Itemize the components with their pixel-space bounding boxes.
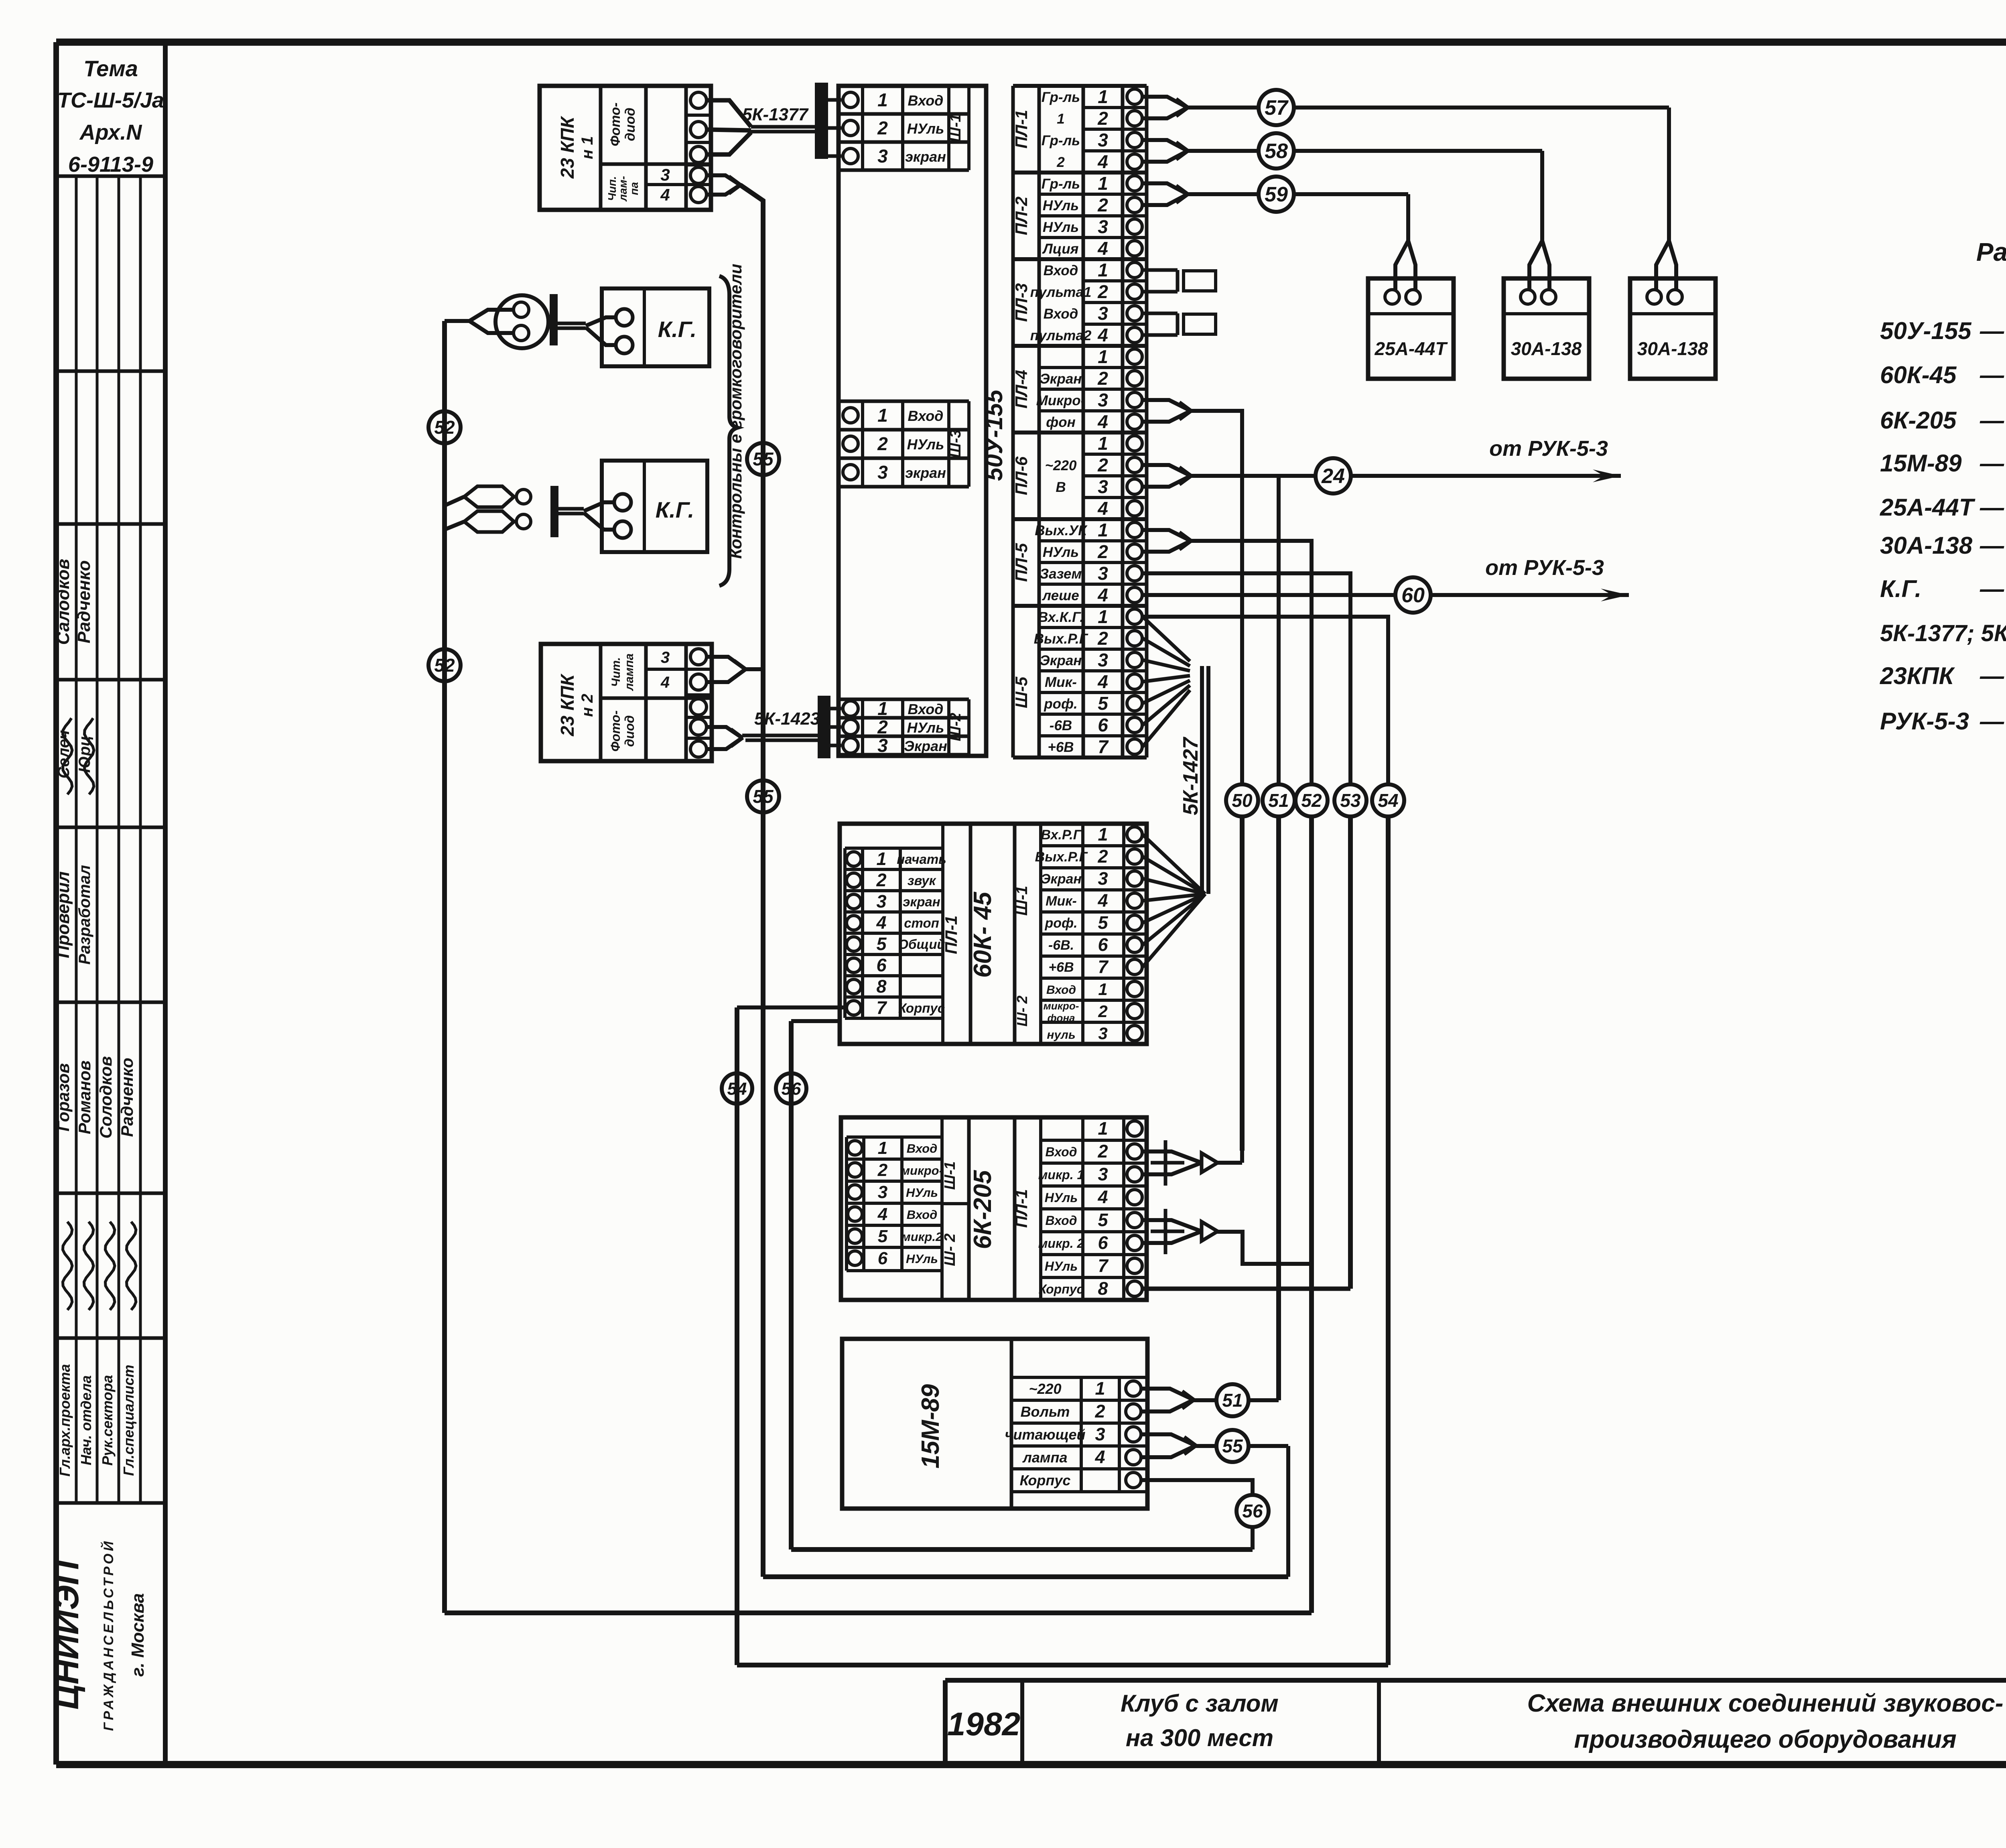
svg-text:2: 2: [1097, 368, 1108, 389]
svg-text:4: 4: [1097, 238, 1108, 259]
svg-text:Корпус: Корпус: [1020, 1472, 1071, 1489]
svg-text:+6В: +6В: [1048, 739, 1074, 755]
svg-text:Салодков: Салодков: [53, 559, 73, 645]
svg-text:1: 1: [877, 405, 888, 426]
svg-text:5К-1377: 5К-1377: [742, 105, 809, 124]
svg-text:53: 53: [1340, 790, 1361, 811]
svg-text:2: 2: [877, 717, 888, 737]
svg-text:звук: звук: [908, 873, 937, 888]
svg-text:4: 4: [877, 1204, 887, 1224]
svg-text:6К-205: 6К-205: [1880, 407, 1957, 434]
svg-text:3: 3: [1098, 303, 1108, 324]
svg-text:г. Москва: г. Москва: [128, 1593, 148, 1677]
svg-text:56: 56: [1242, 1501, 1263, 1521]
svg-text:ГРАЖДАНСЕЛЬСТРОЙ: ГРАЖДАНСЕЛЬСТРОЙ: [101, 1539, 116, 1731]
svg-text:2: 2: [1097, 281, 1108, 302]
svg-text:3: 3: [1098, 390, 1108, 410]
svg-text:1: 1: [1098, 346, 1108, 367]
svg-text:3: 3: [1098, 130, 1108, 150]
svg-text:—: —: [1980, 494, 2004, 521]
svg-text:6: 6: [876, 955, 887, 975]
svg-text:30А-138: 30А-138: [1511, 338, 1582, 359]
svg-text:—: —: [1980, 317, 2004, 344]
svg-text:Микро-: Микро-: [1036, 393, 1086, 408]
svg-text:Зазем: Зазем: [1040, 566, 1082, 582]
svg-text:Вход: Вход: [907, 1208, 938, 1222]
svg-text:начать: начать: [897, 852, 946, 867]
svg-text:ПЛ-2: ПЛ-2: [1012, 197, 1031, 235]
svg-text:НУль: НУль: [1043, 198, 1079, 213]
svg-text:Романов: Романов: [75, 1060, 94, 1134]
svg-text:3: 3: [1098, 563, 1108, 584]
svg-text:Ш-3: Ш-3: [947, 430, 964, 458]
svg-text:50: 50: [1232, 790, 1253, 811]
svg-text:—: —: [1980, 575, 2004, 602]
svg-text:-6В.: -6В.: [1048, 938, 1074, 953]
svg-text:Фото-: Фото-: [608, 102, 623, 146]
svg-text:3: 3: [1098, 868, 1108, 889]
svg-text:2: 2: [1097, 1141, 1108, 1162]
svg-text:1: 1: [877, 89, 888, 110]
svg-text:Гр-ль: Гр-ль: [1042, 176, 1080, 192]
svg-text:+6В: +6В: [1048, 960, 1074, 975]
svg-text:Вход: Вход: [1045, 1145, 1077, 1159]
svg-text:1: 1: [1098, 260, 1108, 280]
svg-text:от РУК-5-3: от РУК-5-3: [1485, 556, 1604, 580]
svg-text:60К-45: 60К-45: [1880, 361, 1957, 388]
svg-text:3: 3: [876, 891, 886, 912]
svg-text:Арх.N: Арх.N: [79, 120, 142, 144]
svg-text:Вход: Вход: [907, 1141, 938, 1156]
svg-text:НУль: НУль: [1045, 1190, 1078, 1205]
svg-text:59: 59: [1265, 183, 1288, 206]
svg-text:Вход: Вход: [908, 92, 944, 109]
svg-text:52: 52: [1301, 790, 1322, 811]
svg-text:Вход: Вход: [1046, 983, 1076, 997]
svg-text:52: 52: [434, 655, 455, 676]
svg-text:ПЛ-6: ПЛ-6: [1012, 456, 1031, 495]
svg-text:1: 1: [877, 698, 888, 719]
svg-text:15М-89: 15М-89: [1880, 450, 1962, 477]
svg-text:ЦНИИЭП: ЦНИИЭП: [47, 1560, 86, 1710]
svg-text:Ш- 2: Ш- 2: [942, 1233, 958, 1266]
svg-text:—: —: [1980, 407, 2004, 434]
svg-text:55: 55: [1222, 1436, 1243, 1456]
svg-text:НУль: НУль: [1045, 1259, 1078, 1273]
svg-text:7: 7: [1098, 736, 1109, 757]
svg-text:Вых.Р.Г: Вых.Р.Г: [1034, 631, 1088, 647]
svg-text:54: 54: [1378, 790, 1398, 811]
svg-text:24: 24: [1321, 465, 1345, 488]
svg-text:К.Г.: К.Г.: [1880, 575, 1921, 602]
svg-text:4: 4: [1097, 585, 1108, 605]
svg-text:2: 2: [877, 118, 888, 138]
svg-text:леше: леше: [1042, 588, 1079, 603]
svg-text:микро-: микро-: [901, 1164, 943, 1178]
svg-text:51: 51: [1268, 790, 1289, 811]
svg-text:РУК-5-3: РУК-5-3: [1880, 708, 1969, 735]
svg-text:—: —: [1980, 662, 2004, 689]
svg-text:Ш-1: Ш-1: [1013, 886, 1031, 916]
svg-text:экран: экран: [905, 465, 946, 481]
svg-text:4: 4: [1094, 1447, 1105, 1467]
svg-text:Гр-ль: Гр-ль: [1042, 89, 1080, 105]
svg-text:на 300 мест: на 300 мест: [1126, 1724, 1273, 1751]
svg-text:4: 4: [1097, 151, 1108, 172]
svg-text:2: 2: [1097, 108, 1108, 129]
svg-text:4: 4: [1097, 325, 1108, 345]
svg-text:4: 4: [660, 674, 670, 691]
svg-text:Клуб с залом: Клуб с залом: [1121, 1690, 1279, 1717]
svg-text:Вх.К.Г.: Вх.К.Г.: [1038, 609, 1084, 625]
svg-text:Горазов: Горазов: [54, 1063, 73, 1131]
svg-text:5К-1427: 5К-1427: [1179, 737, 1202, 815]
svg-text:НУль: НУль: [907, 120, 944, 137]
svg-text:4: 4: [660, 185, 670, 204]
svg-text:30А-138: 30А-138: [1880, 532, 1973, 559]
svg-text:55: 55: [753, 449, 774, 469]
svg-text:2: 2: [1097, 628, 1108, 649]
svg-text:нуль: нуль: [1047, 1028, 1075, 1042]
svg-text:23 КПК: 23 КПК: [557, 673, 578, 736]
svg-text:ПЛ-4: ПЛ-4: [1012, 370, 1031, 408]
svg-text:Экран: Экран: [1040, 653, 1082, 668]
svg-text:Чит.: Чит.: [609, 657, 623, 687]
svg-text:роф.: роф.: [1044, 696, 1077, 712]
svg-text:55: 55: [753, 786, 774, 807]
svg-text:6: 6: [1098, 934, 1108, 955]
svg-text:стоп: стоп: [904, 916, 939, 930]
svg-text:Ш-5: Ш-5: [1012, 676, 1031, 708]
svg-text:5: 5: [1098, 693, 1109, 714]
svg-text:2: 2: [1097, 541, 1108, 562]
svg-text:~220: ~220: [1045, 458, 1077, 473]
svg-text:15М-89: 15М-89: [917, 1384, 944, 1468]
svg-text:Мик-: Мик-: [1045, 674, 1077, 690]
svg-text:4: 4: [1097, 1187, 1108, 1207]
svg-text:3: 3: [660, 165, 670, 184]
svg-text:4: 4: [1097, 671, 1108, 692]
svg-text:микр. 2: микр. 2: [1038, 1236, 1084, 1251]
svg-text:2: 2: [1097, 846, 1108, 867]
svg-text:1: 1: [1057, 111, 1064, 127]
svg-text:3: 3: [661, 649, 670, 666]
svg-text:3: 3: [1095, 1424, 1105, 1444]
svg-text:3: 3: [877, 735, 888, 756]
svg-text:2: 2: [1056, 154, 1065, 170]
svg-text:4: 4: [1097, 498, 1108, 519]
svg-text:6: 6: [1098, 715, 1108, 735]
svg-text:25А-44Т: 25А-44Т: [1880, 494, 1976, 521]
svg-text:диод: диод: [623, 108, 638, 141]
svg-text:1: 1: [1095, 1378, 1105, 1399]
svg-text:экран: экран: [903, 894, 940, 909]
svg-text:Вход: Вход: [1044, 306, 1078, 322]
svg-text:н 1: н 1: [579, 136, 596, 159]
svg-text:3: 3: [1098, 1024, 1107, 1043]
svg-text:лам-: лам-: [617, 176, 629, 202]
svg-text:НУль: НУль: [1043, 219, 1079, 235]
svg-text:фон: фон: [1046, 414, 1076, 430]
svg-text:Вход: Вход: [1044, 263, 1078, 278]
svg-text:—: —: [1980, 450, 2004, 477]
svg-text:Вх.Р.Г: Вх.Р.Г: [1041, 827, 1082, 843]
svg-text:30А-138: 30А-138: [1637, 338, 1708, 359]
svg-text:3: 3: [878, 1182, 887, 1202]
svg-text:Гл.специалист: Гл.специалист: [120, 1365, 137, 1476]
svg-text:Нач. отдела: Нач. отдела: [78, 1375, 94, 1465]
svg-text:ПЛ-5: ПЛ-5: [1012, 543, 1031, 582]
svg-text:Вольт: Вольт: [1021, 1403, 1070, 1420]
svg-text:Вход: Вход: [1045, 1213, 1077, 1228]
svg-text:Тема: Тема: [83, 56, 138, 81]
svg-text:52: 52: [434, 417, 455, 438]
svg-text:2: 2: [1098, 1002, 1107, 1021]
svg-text:Корпус: Корпус: [898, 1001, 945, 1015]
svg-text:микр.2: микр.2: [901, 1230, 942, 1244]
svg-text:Схема внешних соединений зв: Схема внешних соединений звуковос-: [1527, 1690, 2004, 1717]
svg-text:ПЛ-1: ПЛ-1: [1012, 1189, 1031, 1228]
svg-text:Рук.сектора: Рук.сектора: [99, 1375, 116, 1466]
svg-text:1: 1: [1098, 980, 1107, 999]
svg-text:7: 7: [1098, 956, 1109, 977]
svg-text:-6В: -6В: [1050, 718, 1072, 733]
svg-text:НУль: НУль: [907, 436, 944, 453]
svg-text:4: 4: [1097, 890, 1108, 911]
svg-text:микро-: микро-: [1044, 1000, 1079, 1012]
svg-text:1982: 1982: [947, 1706, 1020, 1742]
svg-text:7: 7: [1098, 1255, 1109, 1276]
svg-text:8: 8: [1098, 1278, 1108, 1299]
svg-text:25А-44Т: 25А-44Т: [1375, 338, 1448, 359]
svg-text:Вход: Вход: [908, 408, 944, 424]
svg-text:К.Г.: К.Г.: [656, 497, 694, 522]
svg-text:пульта1: пульта1: [1030, 284, 1092, 300]
svg-text:1: 1: [878, 1138, 887, 1158]
svg-text:6: 6: [878, 1249, 888, 1268]
svg-text:~220: ~220: [1029, 1381, 1061, 1397]
svg-text:2: 2: [877, 1160, 888, 1180]
svg-text:2: 2: [1097, 455, 1108, 475]
svg-text:экран: экран: [905, 148, 946, 165]
svg-text:3: 3: [877, 146, 888, 167]
svg-text:ПЛ-1: ПЛ-1: [942, 916, 960, 954]
svg-text:6К-205: 6К-205: [969, 1170, 997, 1249]
svg-text:4: 4: [1097, 411, 1108, 432]
svg-text:диод: диод: [622, 715, 637, 747]
svg-text:3: 3: [1098, 650, 1108, 670]
svg-text:5: 5: [1098, 1210, 1108, 1230]
svg-text:ТС-Ш-5/Jа: ТС-Ш-5/Jа: [57, 88, 164, 112]
svg-text:Гл.арх.проекта: Гл.арх.проекта: [57, 1364, 73, 1477]
svg-text:2: 2: [1094, 1401, 1105, 1422]
svg-text:НУль: НУль: [1043, 544, 1079, 560]
svg-text:57: 57: [1265, 96, 1289, 120]
svg-text:Корпус: Корпус: [1039, 1282, 1084, 1296]
svg-text:3: 3: [1098, 476, 1108, 497]
svg-text:2: 2: [877, 433, 888, 454]
svg-text:60К- 45: 60К- 45: [969, 892, 997, 978]
svg-text:лампа: лампа: [1022, 1449, 1067, 1466]
svg-text:Экран: Экран: [1041, 871, 1082, 887]
svg-text:н 2: н 2: [579, 694, 596, 717]
svg-text:пульта2: пульта2: [1030, 328, 1092, 343]
svg-text:ПЛ-3: ПЛ-3: [1012, 283, 1031, 322]
svg-text:5К-1423: 5К-1423: [754, 709, 820, 729]
svg-text:Расшифровка оборудования: Расшифровка оборудования: [1976, 238, 2006, 266]
svg-text:—: —: [1980, 361, 2004, 388]
svg-text:7: 7: [876, 997, 887, 1018]
svg-text:50У-155: 50У-155: [1880, 317, 1972, 344]
svg-text:Ш-1: Ш-1: [942, 1162, 958, 1190]
svg-text:НУль: НУль: [907, 719, 944, 736]
svg-text:Ш- 2: Ш- 2: [1014, 995, 1030, 1026]
svg-text:1: 1: [1098, 433, 1108, 454]
svg-text:2: 2: [876, 870, 886, 890]
svg-text:фона: фона: [1047, 1012, 1075, 1024]
svg-text:5: 5: [878, 1227, 888, 1246]
svg-text:читающей: читающей: [1005, 1426, 1086, 1443]
svg-text:60: 60: [1401, 584, 1425, 607]
svg-text:от РУК-5-3: от РУК-5-3: [1489, 437, 1608, 461]
svg-text:23КПК: 23КПК: [1880, 662, 1955, 689]
svg-text:Разработал: Разработал: [76, 865, 93, 965]
svg-text:Вых.УК: Вых.УК: [1035, 523, 1088, 538]
svg-text:НУль: НУль: [906, 1252, 938, 1266]
svg-text:производящего оборудования: производящего оборудования: [1574, 1726, 1956, 1753]
svg-text:1: 1: [1098, 1118, 1108, 1139]
svg-text:па: па: [628, 182, 640, 195]
svg-text:2: 2: [1097, 195, 1108, 215]
svg-text:1: 1: [1098, 173, 1108, 194]
svg-text:микр. 1: микр. 1: [1038, 1168, 1084, 1182]
svg-text:В: В: [1056, 479, 1066, 495]
svg-text:1: 1: [1098, 606, 1108, 627]
svg-text:Ш-1: Ш-1: [947, 114, 964, 142]
svg-text:6-9113-9: 6-9113-9: [68, 152, 153, 177]
svg-text:Солодков: Солодков: [96, 1056, 115, 1139]
svg-text:23 КПК: 23 КПК: [557, 116, 578, 179]
svg-text:Ш-2: Ш-2: [947, 713, 964, 741]
svg-text:5: 5: [876, 934, 887, 954]
svg-text:3: 3: [1098, 1164, 1108, 1184]
svg-text:Фото-: Фото-: [608, 711, 623, 752]
svg-text:К.Г.: К.Г.: [658, 317, 696, 342]
svg-text:—: —: [1980, 708, 2004, 735]
svg-text:Проверил: Проверил: [53, 871, 73, 958]
svg-text:1: 1: [1098, 520, 1108, 540]
svg-text:4: 4: [876, 912, 886, 933]
svg-text:Общий: Общий: [898, 937, 945, 952]
svg-text:5: 5: [1098, 912, 1108, 933]
svg-text:3: 3: [1098, 216, 1108, 237]
svg-text:5К-1377; 5К-1423 - соединитель: 5К-1377; 5К-1423 - соединительные шланги: [1880, 620, 2006, 646]
svg-text:роф.: роф.: [1044, 916, 1077, 931]
svg-text:6: 6: [1098, 1233, 1108, 1253]
svg-text:НУль: НУль: [906, 1186, 938, 1200]
svg-text:Вых.Р.Г: Вых.Р.Г: [1035, 849, 1088, 865]
svg-text:—: —: [1980, 532, 2004, 559]
svg-text:Гр-ль: Гр-ль: [1042, 133, 1080, 148]
svg-text:1: 1: [1098, 824, 1108, 845]
svg-text:51: 51: [1222, 1390, 1243, 1411]
svg-text:Мик-: Мик-: [1046, 894, 1077, 909]
svg-text:3: 3: [877, 462, 888, 483]
svg-text:50У-155: 50У-155: [981, 389, 1007, 481]
svg-text:1: 1: [1098, 86, 1108, 107]
svg-text:лампа: лампа: [623, 654, 636, 692]
svg-text:58: 58: [1265, 140, 1288, 163]
svg-text:Лция: Лция: [1042, 241, 1079, 257]
svg-text:Радченко: Радченко: [74, 560, 94, 644]
svg-text:Вход: Вход: [908, 701, 944, 717]
svg-text:1: 1: [876, 849, 886, 869]
svg-text:Экран: Экран: [904, 738, 947, 754]
svg-text:Экран: Экран: [1040, 371, 1082, 387]
svg-text:Радченко: Радченко: [118, 1058, 136, 1137]
svg-text:8: 8: [876, 976, 886, 997]
svg-text:ПЛ-1: ПЛ-1: [1012, 110, 1031, 148]
